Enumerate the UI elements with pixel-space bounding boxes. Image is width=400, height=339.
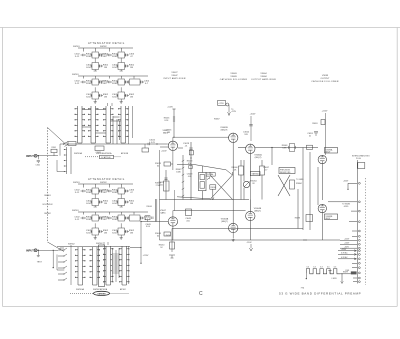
svg-text:SW301: SW301 — [72, 74, 79, 76]
svg-text:6AK5: 6AK5 — [160, 211, 166, 214]
svg-text:ATTENUATOR DETAIL: ATTENUATOR DETAIL — [88, 41, 125, 45]
svg-text:.005: .005 — [188, 176, 192, 178]
svg-text:1M: 1M — [104, 232, 107, 234]
svg-text:+225V: +225V — [322, 111, 329, 113]
svg-text:V3047: V3047 — [171, 75, 178, 77]
svg-text:+350V: +350V — [341, 249, 347, 251]
svg-text:V3083: V3083 — [230, 76, 237, 78]
svg-text:SW301: SW301 — [44, 195, 51, 197]
svg-text:V3027: V3027 — [171, 72, 178, 74]
svg-text:6.3V AC: 6.3V AC — [341, 256, 348, 259]
svg-text:INPUT AMPLIFIER: INPUT AMPLIFIER — [163, 77, 185, 80]
svg-text:8-50: 8-50 — [112, 67, 117, 69]
svg-text:1M: 1M — [104, 203, 107, 205]
svg-text:SW301A: SW301A — [74, 152, 83, 155]
svg-text:3-12: 3-12 — [75, 219, 80, 221]
svg-text:8-50: 8-50 — [112, 203, 117, 205]
svg-text:3-12: 3-12 — [75, 192, 80, 194]
svg-text:+100V: +100V — [344, 243, 350, 245]
svg-text:INPUT: INPUT — [26, 249, 34, 253]
svg-text:+350V: +350V — [343, 181, 349, 183]
svg-text:V3064: V3064 — [260, 73, 267, 75]
svg-text:TEST: TEST — [37, 262, 43, 264]
svg-text:R3044: R3044 — [147, 206, 152, 208]
svg-text:3-12: 3-12 — [101, 219, 106, 221]
svg-text:SW302: SW302 — [100, 46, 107, 48]
svg-text:V3084: V3084 — [260, 76, 267, 78]
svg-text:SW301: SW301 — [73, 182, 80, 184]
svg-text:F301: F301 — [346, 270, 350, 272]
svg-text:8-50: 8-50 — [112, 96, 117, 98]
svg-text:8-50: 8-50 — [86, 67, 91, 69]
svg-text:(6BQ7): (6BQ7) — [221, 221, 228, 223]
svg-text:SW301: SW301 — [73, 46, 80, 48]
svg-text:VOLTS/DIV: VOLTS/DIV — [42, 204, 53, 206]
svg-text:INPUT: INPUT — [26, 154, 34, 158]
svg-text:ATTENUATOR DETAIL: ATTENUATOR DETAIL — [88, 177, 125, 181]
svg-text:8-50: 8-50 — [146, 226, 150, 228]
svg-text:AT302: AT302 — [120, 288, 127, 291]
svg-text:SW302: SW302 — [44, 213, 51, 215]
svg-text:8-50: 8-50 — [112, 232, 117, 234]
svg-text:OUTPUT: OUTPUT — [321, 78, 331, 80]
svg-text:C: C — [199, 291, 203, 297]
svg-text:SW302: SW302 — [96, 243, 103, 245]
svg-text:C301: C301 — [36, 165, 41, 167]
svg-text:6BQ7: 6BQ7 — [326, 218, 331, 220]
svg-text:+100V: +100V — [250, 114, 257, 116]
svg-text:6.3: 6.3 — [313, 267, 315, 269]
svg-text:R301: R301 — [52, 147, 57, 149]
svg-text:333K: 333K — [112, 192, 118, 194]
svg-text:6BQ7: 6BQ7 — [326, 152, 331, 154]
svg-text:+100V: +100V — [167, 107, 173, 109]
svg-text:333K: 333K — [112, 56, 118, 58]
svg-text:SW302: SW302 — [100, 182, 107, 184]
svg-text:6AK5: 6AK5 — [163, 131, 169, 134]
svg-text:R3099: R3099 — [343, 272, 348, 274]
svg-text:GAIN ADJ: GAIN ADJ — [252, 173, 260, 176]
svg-text:1X ATTEN: 1X ATTEN — [101, 156, 111, 159]
svg-text:+225V: +225V — [143, 255, 150, 257]
svg-text:3-12: 3-12 — [75, 56, 80, 58]
svg-text:333K: 333K — [86, 83, 92, 85]
svg-text:1M: 1M — [130, 96, 133, 98]
svg-text:4.5-25: 4.5-25 — [149, 142, 156, 144]
svg-text:8-50: 8-50 — [86, 232, 91, 234]
svg-text:GRID: GRID — [344, 206, 349, 208]
svg-text:1M: 1M — [104, 67, 107, 69]
svg-text:3-12: 3-12 — [101, 56, 106, 58]
svg-text:01: 01 — [309, 135, 311, 137]
svg-text:V3093: V3093 — [322, 75, 329, 77]
svg-text:L3099: L3099 — [332, 278, 337, 280]
svg-text:-150V: -150V — [165, 235, 171, 237]
svg-text:+225V: +225V — [231, 111, 237, 113]
svg-text:C3021: C3021 — [96, 152, 102, 154]
svg-text:6.3: 6.3 — [320, 267, 322, 269]
svg-text:8-50: 8-50 — [86, 96, 91, 98]
svg-text:PLUG: PLUG — [356, 158, 361, 160]
svg-text:1M: 1M — [104, 96, 107, 98]
svg-text:+225V: +225V — [344, 239, 350, 241]
svg-text:100K: 100K — [176, 171, 181, 173]
svg-text:3-12: 3-12 — [101, 83, 106, 85]
svg-text:333K: 333K — [112, 219, 118, 221]
svg-text:6.3: 6.3 — [327, 267, 329, 269]
svg-text:53 G WIDE BAND DIFFERENTI: 53 G WIDE BAND DIFFERENTIAL PREAMP — [279, 292, 361, 296]
svg-text:SW301: SW301 — [72, 210, 79, 212]
svg-text:270K: 270K — [156, 185, 161, 187]
svg-text:6.3: 6.3 — [307, 267, 309, 269]
svg-text:SW302 AT302A: SW302 AT302A — [93, 288, 108, 291]
svg-text:CATHODE FOLLOWER: CATHODE FOLLOWER — [220, 78, 248, 81]
svg-text:R3098: R3098 — [295, 218, 300, 220]
svg-text:R3084: R3084 — [296, 183, 302, 185]
svg-text:(6BQ7): (6BQ7) — [221, 129, 228, 131]
svg-text:CATHODE FOLLOWER: CATHODE FOLLOWER — [311, 80, 339, 83]
svg-text:333K: 333K — [86, 192, 92, 194]
svg-text:SW302: SW302 — [68, 244, 75, 246]
svg-text:SW301A: SW301A — [76, 288, 85, 291]
svg-text:1M: 1M — [130, 203, 133, 205]
svg-text:R3093: R3093 — [312, 123, 317, 125]
svg-text:333K: 333K — [86, 219, 92, 221]
svg-text:R3067: R3067 — [214, 119, 220, 121]
svg-text:1M: 1M — [130, 232, 133, 234]
svg-text:8-50: 8-50 — [86, 203, 91, 205]
svg-text:+100V: +100V — [161, 151, 167, 153]
svg-text:333K: 333K — [86, 56, 92, 58]
svg-text:6.3V AC: 6.3V AC — [341, 252, 348, 255]
svg-text:333K: 333K — [112, 83, 118, 85]
svg-text:3-12: 3-12 — [75, 83, 80, 85]
svg-text:+225V: +225V — [218, 103, 224, 105]
svg-text:3-12: 3-12 — [101, 192, 106, 194]
svg-text:1M: 1M — [130, 67, 133, 69]
svg-text:.005: .005 — [186, 220, 190, 222]
svg-text:V3063: V3063 — [230, 73, 237, 75]
svg-text:-150V: -150V — [247, 242, 253, 244]
svg-text:R3056: R3056 — [211, 187, 216, 189]
svg-text:AT301B: AT301B — [121, 152, 129, 155]
svg-text:INTERCONNECTING: INTERCONNECTING — [352, 156, 370, 158]
svg-text:(6BQ7): (6BQ7) — [255, 157, 262, 159]
svg-text:6.3: 6.3 — [334, 267, 336, 269]
svg-text:(6BQ7): (6BQ7) — [254, 210, 261, 212]
svg-text:GANGED: GANGED — [97, 292, 106, 295]
svg-text:OUTPUT AMPLIFIER: OUTPUT AMPLIFIER — [251, 78, 276, 81]
svg-text:RESISTORS: RESISTORS — [280, 172, 291, 174]
